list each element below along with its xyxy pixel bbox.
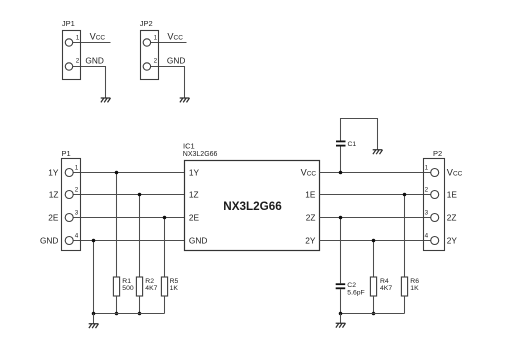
svg-text:5.6pF: 5.6pF — [347, 289, 364, 296]
wire to ground right — [340, 314, 342, 324]
ground (JP1) — [101, 98, 111, 102]
ground (C1) — [373, 150, 383, 154]
resistor R5 — [161, 218, 167, 314]
svg-text:IC1: IC1 — [183, 142, 195, 151]
junction C1 on VCC row — [339, 171, 343, 175]
connector P2 — [424, 159, 445, 251]
junction bottom bus right corner — [339, 312, 343, 316]
svg-text:1: 1 — [76, 34, 80, 41]
junction R2 top — [138, 193, 142, 197]
svg-text:R1: R1 — [122, 278, 131, 285]
junction GND drop on row4 — [92, 239, 96, 243]
junction R2 bottom — [138, 312, 142, 316]
svg-text:2: 2 — [75, 186, 79, 193]
svg-text:GND: GND — [167, 56, 185, 66]
svg-text:1Y: 1Y — [48, 167, 59, 177]
resistor R4 — [370, 241, 376, 314]
svg-text:2Z: 2Z — [447, 212, 457, 222]
resistor R2 — [136, 195, 142, 314]
capacitor C2 — [336, 218, 346, 314]
svg-text:GND: GND — [40, 235, 58, 245]
junction C2 top on 2Z row — [339, 216, 343, 220]
junction R6 top on 1E row — [403, 193, 407, 197]
junction R4 bottom — [372, 312, 376, 316]
svg-text:4K7: 4K7 — [380, 285, 392, 292]
wire P1.1 to IC 1Y — [73, 172, 184, 174]
svg-text:C1: C1 — [348, 141, 357, 148]
junction R5 top — [163, 216, 167, 220]
svg-text:500: 500 — [122, 285, 134, 292]
wire JP2 pin2 to ground — [151, 67, 185, 99]
svg-text:3: 3 — [425, 209, 429, 216]
wire to ground left — [93, 314, 95, 324]
svg-text:1K: 1K — [410, 285, 419, 292]
svg-text:4: 4 — [425, 232, 429, 239]
wire P1.2 to IC 1Z — [73, 194, 184, 196]
svg-text:2: 2 — [76, 58, 80, 65]
svg-text:1Z: 1Z — [49, 189, 59, 199]
ground (JP2) — [180, 98, 190, 102]
svg-text:2E: 2E — [189, 212, 200, 222]
svg-text:NX3L2G66: NX3L2G66 — [223, 200, 282, 213]
svg-text:2Y: 2Y — [305, 235, 316, 245]
junction R4 top on 2Y row — [372, 239, 376, 243]
svg-text:2: 2 — [154, 58, 158, 65]
junction R1 bottom — [115, 312, 119, 316]
svg-text:1: 1 — [425, 164, 429, 171]
capacitor C1 — [336, 119, 378, 173]
svg-text:1E: 1E — [447, 189, 458, 199]
wire JP1 pin2 to ground — [73, 67, 106, 99]
wire JP1 pin1 VCC stub — [73, 42, 111, 44]
svg-text:JP1: JP1 — [62, 19, 75, 28]
connector JP1 — [63, 31, 81, 80]
svg-text:R4: R4 — [380, 278, 389, 285]
svg-text:3: 3 — [75, 209, 79, 216]
svg-text:GND: GND — [189, 235, 207, 245]
svg-text:GND: GND — [85, 56, 103, 66]
svg-text:NX3L2G66: NX3L2G66 — [183, 151, 218, 158]
wire bottom bus right — [341, 313, 405, 315]
svg-text:2Z: 2Z — [306, 212, 316, 222]
svg-text:1Y: 1Y — [189, 167, 200, 177]
wire bottom bus left — [94, 313, 165, 315]
wire P1.3 to IC 2E — [73, 217, 184, 219]
wire JP2 pin1 VCC stub — [151, 42, 187, 44]
junction bottom bus left corner — [92, 312, 96, 316]
svg-text:R2: R2 — [145, 278, 154, 285]
svg-text:JP2: JP2 — [140, 19, 153, 28]
svg-text:1: 1 — [154, 34, 158, 41]
wire IC 2Z to P2.3 — [320, 217, 431, 219]
resistor R1 — [113, 173, 119, 314]
svg-text:C2: C2 — [347, 282, 356, 289]
connector JP2 — [141, 31, 159, 80]
op IC1 body — [185, 161, 320, 251]
svg-text:R6: R6 — [410, 278, 419, 285]
ground (left bus) — [89, 324, 99, 328]
junction R1 top — [115, 171, 119, 175]
svg-text:1Z: 1Z — [189, 189, 199, 199]
wire GND drop from P1.4 — [93, 241, 95, 314]
ground (right bus) — [336, 323, 346, 327]
svg-text:1K: 1K — [170, 285, 179, 292]
svg-text:2E: 2E — [48, 212, 59, 222]
connector P1 — [62, 159, 81, 251]
svg-text:4: 4 — [75, 232, 79, 239]
svg-text:2Y: 2Y — [447, 235, 458, 245]
wire IC 1E to P2.2 — [320, 194, 431, 196]
svg-text:P1: P1 — [62, 149, 71, 158]
svg-text:R5: R5 — [170, 278, 179, 285]
svg-text:P2: P2 — [433, 149, 442, 158]
wire IC VCC to P2.1 — [320, 172, 431, 174]
svg-text:1: 1 — [75, 164, 79, 171]
svg-text:2: 2 — [425, 186, 429, 193]
wire P1.4 to IC GND — [73, 240, 184, 242]
wire IC 2Y to P2.4 — [320, 240, 431, 242]
resistor R6 — [401, 195, 407, 314]
svg-text:1E: 1E — [305, 189, 316, 199]
svg-text:4K7: 4K7 — [145, 285, 157, 292]
